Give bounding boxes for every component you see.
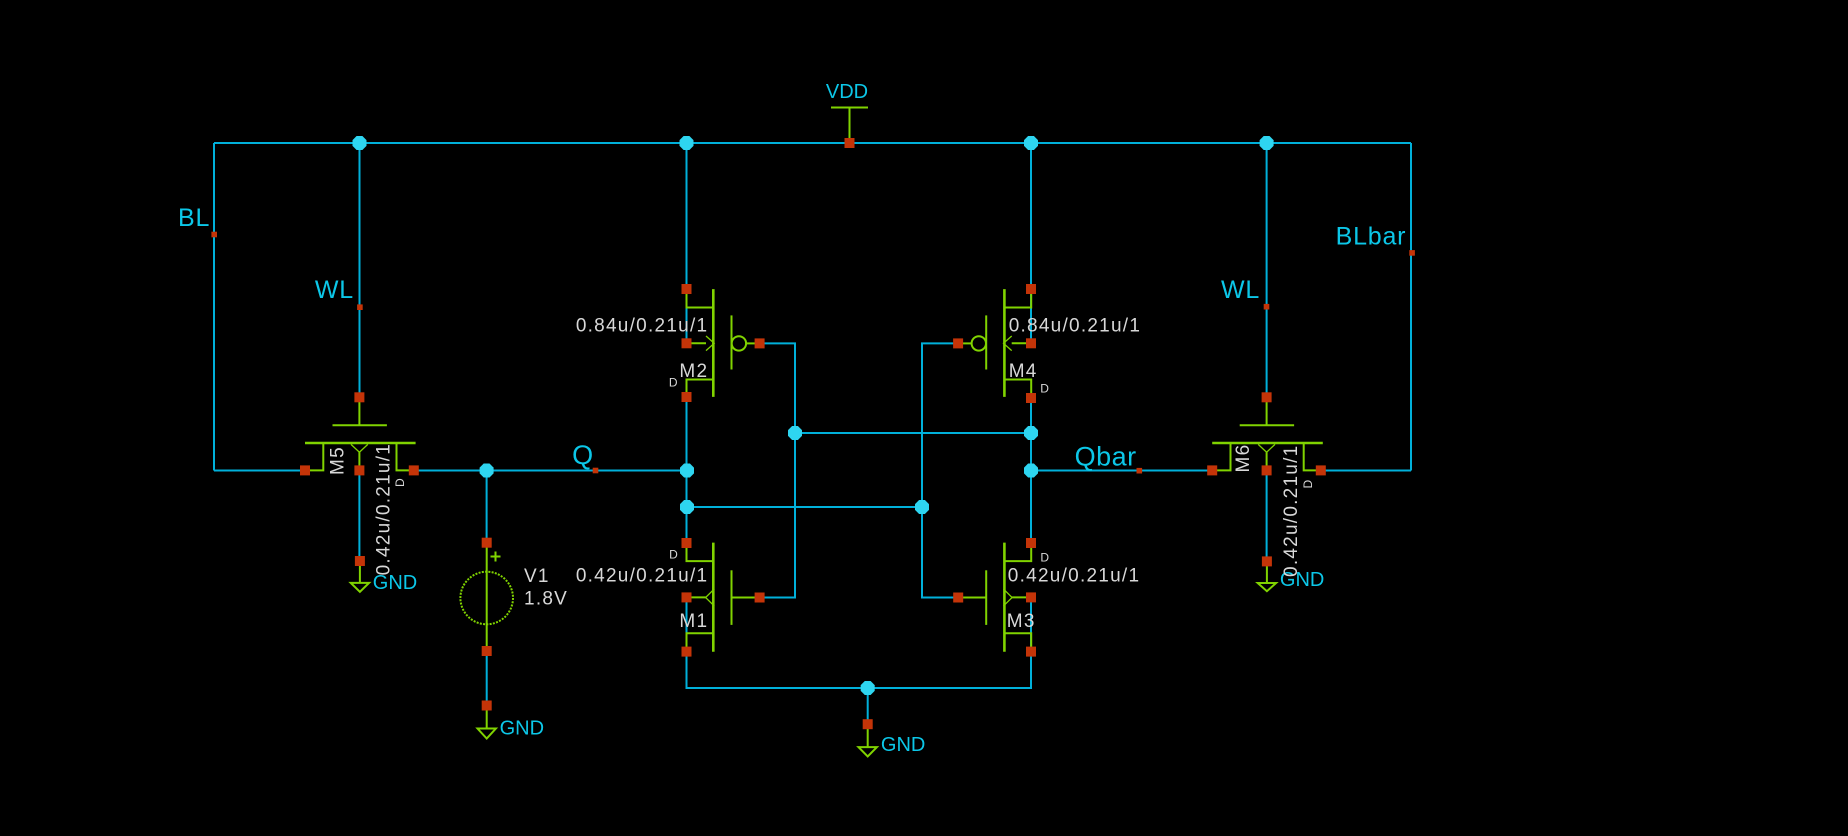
- svg-text:M5: M5: [328, 446, 349, 475]
- svg-text:GND: GND: [881, 734, 925, 756]
- svg-text:0.84u/0.21u/1: 0.84u/0.21u/1: [576, 316, 708, 337]
- svg-text:VDD: VDD: [826, 81, 868, 103]
- svg-text:1.8V: 1.8V: [524, 589, 568, 610]
- svg-text:0.42u/0.21u/1: 0.42u/0.21u/1: [373, 443, 394, 575]
- svg-text:M4: M4: [1009, 361, 1038, 382]
- svg-text:M3: M3: [1007, 611, 1036, 632]
- svg-text:0.84u/0.21u/1: 0.84u/0.21u/1: [1009, 316, 1141, 337]
- svg-text:0.42u/0.21u/1: 0.42u/0.21u/1: [576, 565, 708, 586]
- svg-text:M2: M2: [679, 361, 708, 382]
- svg-text:Q: Q: [572, 440, 594, 470]
- svg-text:0.42u/0.21u/1: 0.42u/0.21u/1: [1008, 565, 1140, 586]
- svg-text:M6: M6: [1233, 444, 1254, 473]
- svg-text:GND: GND: [500, 718, 544, 740]
- svg-text:WL: WL: [1221, 276, 1260, 304]
- svg-text:BL: BL: [178, 204, 210, 232]
- svg-text:BLbar: BLbar: [1336, 222, 1407, 250]
- svg-text:V1: V1: [524, 566, 550, 587]
- svg-text:Qbar: Qbar: [1075, 441, 1137, 471]
- svg-text:0.42u/0.21u/1: 0.42u/0.21u/1: [1281, 445, 1302, 577]
- svg-text:WL: WL: [315, 276, 354, 304]
- svg-text:M1: M1: [679, 611, 708, 632]
- svg-text:D: D: [669, 376, 678, 390]
- svg-text:D: D: [1040, 550, 1049, 564]
- svg-text:D: D: [1040, 382, 1049, 396]
- svg-text:D: D: [669, 547, 678, 561]
- svg-text:D: D: [1301, 480, 1315, 489]
- svg-text:D: D: [393, 478, 407, 487]
